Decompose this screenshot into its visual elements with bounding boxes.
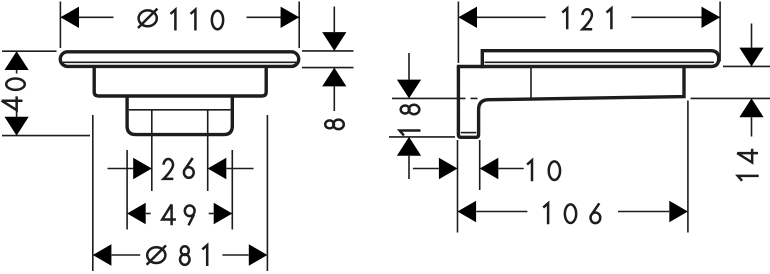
left view: plate inner line bbox=[63, 61, 296, 63]
dim 10 right tail bbox=[499, 168, 524, 170]
left view: body bbox=[94, 67, 266, 97]
dim 18 extension line bottom bbox=[389, 136, 455, 138]
dim O81 right tail bbox=[222, 254, 248, 256]
dim O110 label bbox=[138, 9, 223, 31]
dim 40 line lower segment bbox=[16, 110, 18, 119]
dim 121 line left segment bbox=[458, 16, 545, 18]
dim 14 upper tail bbox=[751, 24, 753, 48]
dim 106 left tail bbox=[476, 211, 527, 213]
dim 18 upper tail bbox=[408, 53, 410, 80]
dim 121 label bbox=[562, 8, 611, 29]
right view: wall bottom seam bbox=[461, 132, 477, 134]
right view: plate inner line bbox=[485, 61, 715, 63]
dim O81 label bbox=[147, 245, 208, 266]
dim 40 line upper segment bbox=[16, 68, 18, 74]
dim O110 extension line left bbox=[59, 2, 61, 49]
right view: bracket top edge bbox=[457, 65, 484, 68]
dim 106 extension line right bbox=[687, 101, 689, 233]
dim 18 arrow down bbox=[397, 80, 421, 99]
dim 10 label bbox=[527, 160, 560, 181]
dim 49 label bbox=[162, 204, 194, 225]
dim 121 line right segment bbox=[631, 16, 720, 18]
dim 26 label bbox=[164, 158, 194, 179]
dim 14 extension line bottom bbox=[691, 97, 770, 99]
dim 40 label bbox=[2, 79, 25, 111]
right view: shelf plate side bbox=[482, 51, 718, 67]
dim 8 upper tail bbox=[333, 7, 335, 33]
dim O81 extension line right bbox=[266, 115, 268, 271]
dim 18 label bbox=[400, 105, 421, 136]
dim 49 right tick bbox=[209, 213, 214, 215]
dim 10 extension line right bbox=[479, 140, 481, 190]
dim 8 arrow up bbox=[322, 68, 346, 87]
dim 14 arrow up bbox=[739, 98, 763, 117]
dim 40 arrow up bbox=[5, 51, 29, 70]
dim 106 arrow right bbox=[669, 201, 688, 222]
dim 121 arrow right bbox=[702, 7, 721, 28]
dim 26 left tail bbox=[108, 168, 134, 170]
right view: bracket outline bbox=[458, 67, 684, 138]
dim O110 line right segment bbox=[247, 16, 300, 18]
dim 26 arrow pointing right bbox=[133, 158, 152, 179]
dim 40 extension line top bbox=[2, 50, 57, 52]
dim 49 extension line left bbox=[126, 150, 128, 230]
dim 8 lower tail bbox=[333, 86, 335, 111]
dim 49 extension line right bbox=[231, 150, 233, 230]
dim 14 label bbox=[737, 149, 759, 181]
dim 14 lower tail bbox=[751, 117, 753, 136]
dim 8 extension line bottom bbox=[302, 67, 354, 69]
dim 121 extension line right bbox=[719, 2, 721, 62]
dim 40 extension line bottom bbox=[2, 135, 90, 137]
dim 26 arrow pointing left bbox=[208, 158, 227, 179]
dim 49 arrow left bbox=[127, 203, 146, 224]
dim 49 left tick bbox=[146, 213, 151, 215]
dim O81 arrow left bbox=[93, 244, 112, 265]
dim 26 right tail bbox=[227, 168, 254, 170]
dim 18 extension line top bbox=[392, 97, 457, 99]
dim 26 extension line left bbox=[151, 110, 153, 191]
dim O110 arrow left bbox=[60, 7, 79, 28]
dim 10 left tail bbox=[413, 168, 439, 170]
dim 18 arrow up bbox=[397, 137, 421, 156]
dim O110 line left segment bbox=[60, 16, 113, 18]
dim 106 arrow left bbox=[458, 201, 477, 222]
left view: bowl inner line bbox=[129, 109, 231, 111]
dim 106 label bbox=[543, 203, 600, 224]
dim 14 arrow down bbox=[739, 48, 763, 67]
left view: bowl bbox=[127, 96, 232, 135]
dim 40 arrow down bbox=[5, 117, 29, 136]
dim 49 arrow right bbox=[214, 203, 233, 224]
dim 106 right tail bbox=[618, 211, 669, 213]
dim 8 label bbox=[325, 120, 344, 129]
left view: dish top plate bbox=[60, 52, 298, 67]
dim 8 extension line top bbox=[302, 50, 354, 52]
dim 121 arrow left bbox=[458, 7, 477, 28]
dim O110 extension line right bbox=[298, 2, 300, 49]
dim 10 arrow pointing right bbox=[439, 158, 458, 179]
dim 121 extension line left bbox=[457, 2, 459, 64]
dim 10 arrow pointing left bbox=[480, 158, 499, 179]
dim 26 extension line right bbox=[207, 110, 209, 191]
dim O81 arrow right bbox=[249, 244, 268, 265]
right view: bracket seam line bbox=[530, 68, 532, 99]
dim 14 extension line top bbox=[723, 65, 770, 67]
dim O81 left tail bbox=[112, 254, 141, 256]
dim O81 extension line left bbox=[92, 115, 94, 271]
dim 18 lower tail bbox=[408, 156, 410, 179]
dim O110 arrow right bbox=[281, 7, 300, 28]
dim 10 extension line left bbox=[457, 140, 459, 233]
dim 8 arrow down bbox=[322, 32, 346, 51]
right view: hidden underside dashed line bbox=[458, 97, 478, 99]
